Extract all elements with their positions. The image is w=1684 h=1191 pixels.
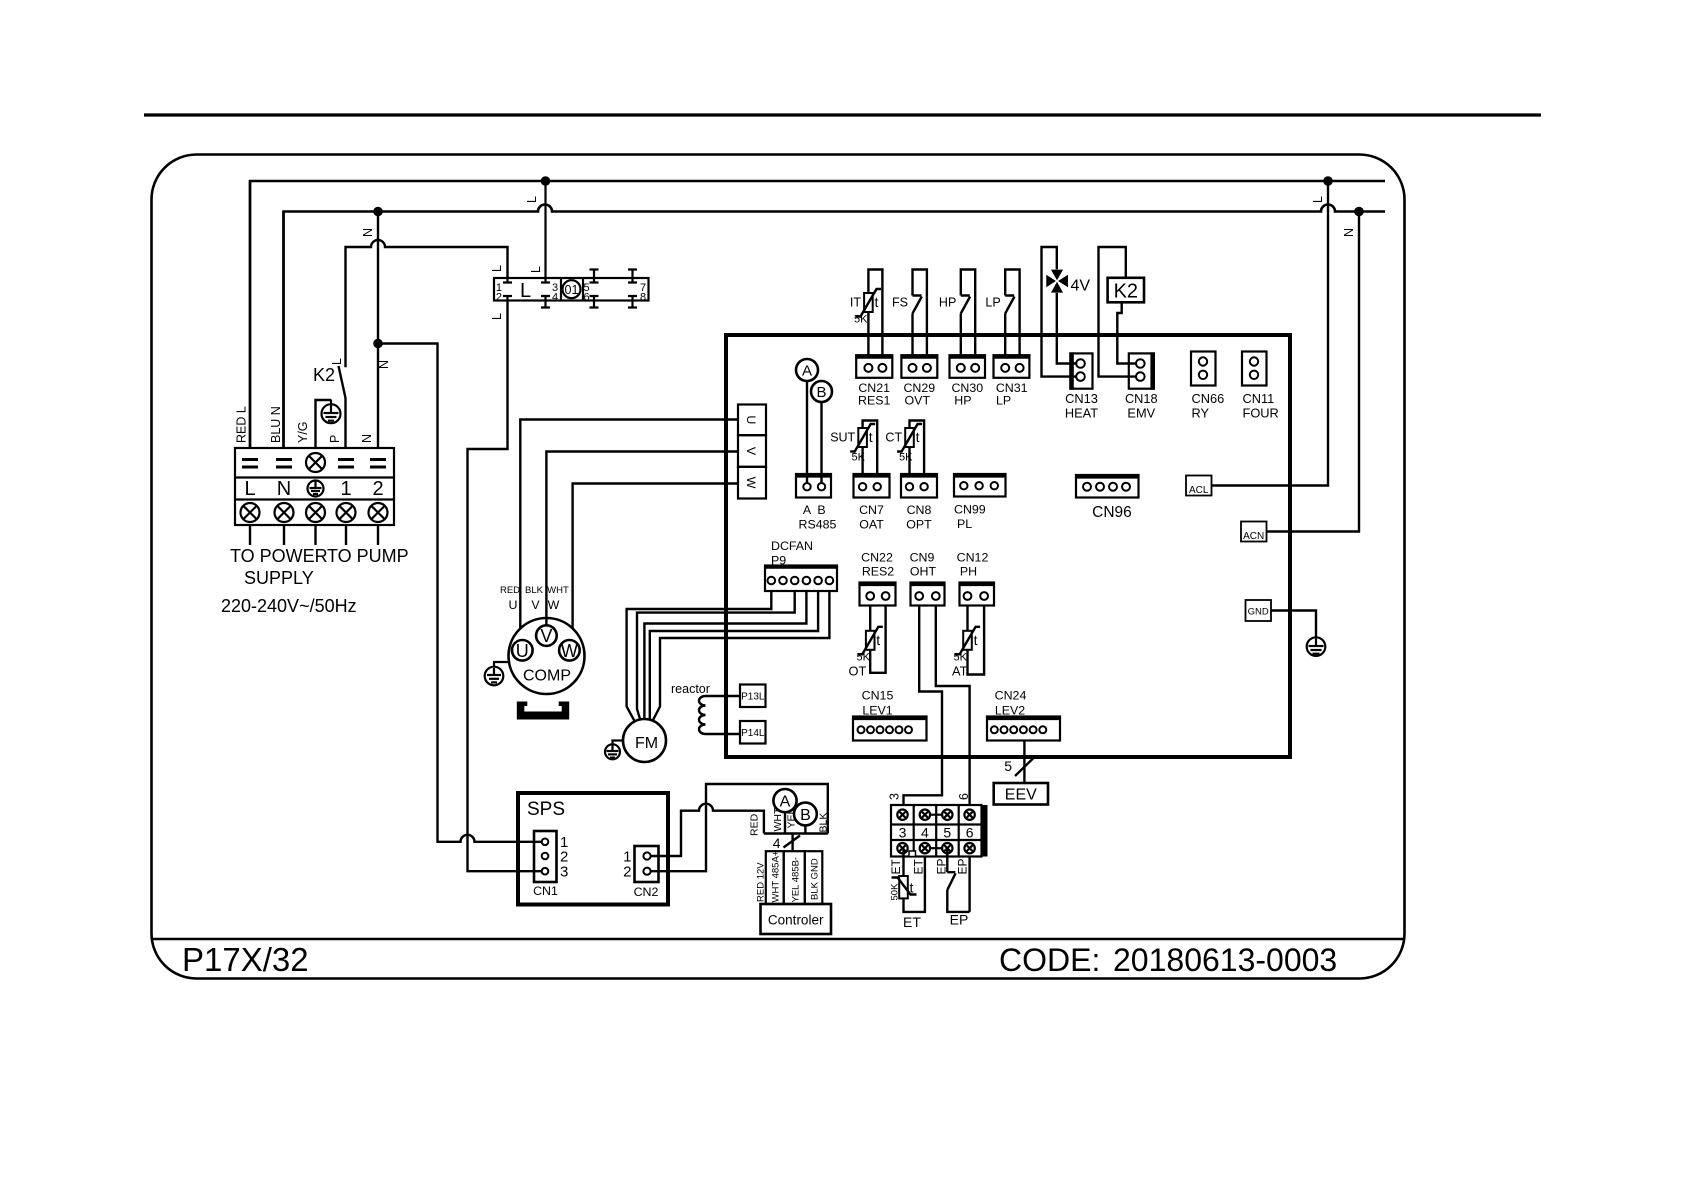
connector CN66 bbox=[1191, 352, 1216, 386]
node L junction right bbox=[1323, 176, 1333, 186]
switch K2 bbox=[339, 366, 346, 398]
connector CN1 bbox=[534, 831, 557, 882]
wire BLU N column bbox=[282, 212, 284, 449]
valve 4V symbol bbox=[1046, 270, 1068, 293]
svg-text:3: 3 bbox=[888, 793, 902, 800]
wire stubs below terminals bbox=[250, 525, 378, 545]
svg-text:HP: HP bbox=[939, 296, 956, 310]
svg-text:RED L: RED L bbox=[235, 406, 249, 443]
label 5 wires slash bbox=[1015, 758, 1034, 777]
connector P14L bbox=[740, 721, 766, 744]
terminal B remote bbox=[794, 803, 817, 826]
box GND bbox=[1246, 600, 1272, 621]
svg-text:6: 6 bbox=[957, 793, 971, 800]
svg-text:A: A bbox=[802, 363, 812, 380]
svg-text:CN11: CN11 bbox=[1243, 391, 1275, 406]
svg-text:3: 3 bbox=[560, 864, 568, 881]
svg-text:3: 3 bbox=[899, 825, 907, 841]
terminal A remote bbox=[773, 789, 796, 812]
node N junction left bbox=[373, 207, 383, 217]
relay pin 2 bbox=[503, 296, 512, 301]
relay pin 7 bbox=[628, 270, 637, 283]
svg-text:DCFAN: DCFAN bbox=[771, 539, 813, 553]
relay pin 4 bbox=[541, 296, 550, 308]
connector CN8 bbox=[901, 474, 937, 498]
sensor ET loop bbox=[904, 848, 925, 912]
svg-text:CN22: CN22 bbox=[861, 551, 893, 565]
svg-text:4: 4 bbox=[773, 835, 781, 851]
relay pin 8 bbox=[628, 296, 637, 308]
svg-text:FS: FS bbox=[892, 296, 908, 310]
svg-text:5: 5 bbox=[943, 825, 951, 841]
svg-text:2: 2 bbox=[372, 478, 383, 500]
controller wire label boxes bbox=[766, 851, 784, 904]
svg-text:5K: 5K bbox=[857, 652, 871, 664]
node N junction lower bbox=[373, 339, 383, 349]
svg-text:V: V bbox=[531, 598, 540, 612]
connector V on board bbox=[738, 435, 766, 467]
svg-text:LP: LP bbox=[985, 296, 1000, 310]
wire L bus bbox=[250, 181, 1385, 448]
wire P9 pin3 to FM bbox=[637, 591, 795, 720]
wire B to RS485 bbox=[820, 402, 822, 483]
svg-text:AT: AT bbox=[952, 664, 968, 679]
svg-text:CN13: CN13 bbox=[1065, 391, 1098, 406]
connector CN31 bbox=[994, 355, 1030, 378]
svg-text:CN15: CN15 bbox=[862, 689, 894, 703]
svg-text:CN7: CN7 bbox=[859, 503, 884, 517]
svg-text:CT: CT bbox=[885, 431, 902, 445]
svg-text:8: 8 bbox=[640, 292, 646, 304]
connector CN2 bbox=[635, 846, 659, 882]
svg-text:CN9: CN9 bbox=[910, 551, 935, 565]
svg-text:L: L bbox=[525, 196, 539, 203]
sensor AT loop bbox=[968, 606, 985, 675]
svg-text:W: W bbox=[561, 641, 578, 661]
svg-text:U: U bbox=[509, 598, 518, 612]
sensor LP loop bbox=[1005, 270, 1019, 356]
terminal screws bottom row bbox=[241, 503, 388, 522]
svg-text:P17X/32: P17X/32 bbox=[182, 941, 309, 978]
wire P9 pin1 to FM bbox=[627, 591, 772, 721]
switch LP bbox=[1005, 296, 1014, 314]
relay terminal strip 01 bbox=[494, 278, 649, 301]
wire P9 pin4 to FM bbox=[644, 591, 806, 719]
box EEV bbox=[994, 783, 1048, 805]
svg-text:HEAT: HEAT bbox=[1065, 406, 1098, 421]
sensor IT loop bbox=[868, 270, 882, 356]
connector U on board bbox=[738, 405, 766, 436]
svg-text:6: 6 bbox=[584, 292, 590, 304]
svg-text:20180613-0003: 20180613-0003 bbox=[1113, 942, 1337, 978]
svg-text:5K: 5K bbox=[852, 452, 866, 464]
svg-text:5: 5 bbox=[1004, 758, 1012, 774]
svg-text:ACN: ACN bbox=[1243, 531, 1264, 542]
connector CN11 bbox=[1242, 352, 1267, 386]
svg-text:A: A bbox=[803, 503, 812, 517]
wire reactor to P14L bbox=[706, 733, 741, 735]
comp terminal W bbox=[559, 640, 580, 661]
svg-text:4: 4 bbox=[921, 825, 929, 841]
small square mark bbox=[909, 851, 916, 857]
relay coil K2 bbox=[1108, 278, 1144, 303]
svg-text:OT: OT bbox=[849, 664, 867, 679]
box SPS bbox=[518, 793, 668, 905]
terminal block right bar bbox=[982, 805, 988, 857]
PCB main board outline bbox=[726, 335, 1290, 757]
svg-text:L: L bbox=[330, 358, 344, 365]
svg-text:t: t bbox=[876, 632, 880, 648]
connector CN15 bbox=[853, 717, 927, 741]
thermistor CT bbox=[905, 428, 914, 447]
thermistor IT bbox=[864, 293, 873, 312]
svg-text:2: 2 bbox=[496, 292, 502, 304]
connector CN21 bbox=[856, 355, 892, 378]
comp mounting bracket bbox=[517, 702, 569, 720]
svg-text:OVT: OVT bbox=[905, 394, 931, 408]
wire ACN to N bbox=[1267, 212, 1360, 532]
inductor reactor bbox=[699, 696, 705, 734]
svg-text:K2: K2 bbox=[1114, 281, 1138, 303]
box Controller bbox=[761, 904, 832, 934]
svg-text:01: 01 bbox=[565, 283, 579, 297]
wire N branch to SPS CN1 pin1 with hop bbox=[378, 344, 542, 842]
svg-text:reactor: reactor bbox=[671, 682, 710, 696]
svg-text:4: 4 bbox=[552, 292, 558, 304]
svg-text:5K: 5K bbox=[954, 652, 968, 664]
svg-text:OAT: OAT bbox=[859, 518, 884, 532]
terminal A rs485 bbox=[796, 359, 818, 381]
comp terminal V bbox=[536, 625, 557, 646]
svg-text:t: t bbox=[875, 294, 879, 310]
svg-text:IT: IT bbox=[850, 296, 861, 310]
relay K2 coil wires bbox=[1099, 247, 1141, 377]
svg-text:V: V bbox=[540, 626, 552, 646]
terminal screws bottom bbox=[897, 843, 975, 853]
svg-text:CN66: CN66 bbox=[1192, 391, 1225, 406]
wire A lead bbox=[784, 812, 786, 833]
node N junction right bbox=[1354, 207, 1364, 217]
svg-text:FOUR: FOUR bbox=[1243, 406, 1279, 421]
wire GND to earth bbox=[1271, 611, 1316, 638]
connector CN96 bbox=[1076, 475, 1139, 498]
box ACN bbox=[1241, 522, 1267, 542]
relay pin 3 bbox=[541, 181, 550, 283]
svg-text:BLK GND: BLK GND bbox=[810, 858, 821, 900]
svg-text:GND: GND bbox=[1248, 607, 1269, 618]
relay lamp 01 bbox=[563, 280, 581, 298]
svg-text:PH: PH bbox=[960, 565, 977, 579]
connector CN12 bbox=[960, 583, 995, 606]
svg-text:YEL 485B-: YEL 485B- bbox=[791, 857, 802, 903]
svg-text:RS485: RS485 bbox=[799, 518, 837, 532]
frame border bbox=[152, 155, 1405, 979]
sensor OT loop bbox=[870, 606, 885, 673]
svg-text:L: L bbox=[490, 265, 504, 272]
svg-text:CN18: CN18 bbox=[1125, 391, 1158, 406]
svg-text:BLK: BLK bbox=[818, 813, 830, 833]
terminal block 3456 bbox=[891, 805, 982, 857]
connector P9 bbox=[765, 566, 837, 592]
sensor CT loop bbox=[910, 421, 925, 475]
svg-text:W: W bbox=[548, 598, 560, 612]
connector CN22 bbox=[860, 583, 896, 606]
svg-text:K2: K2 bbox=[313, 365, 335, 385]
thermistor OT bbox=[866, 631, 875, 650]
svg-text:EP: EP bbox=[935, 858, 949, 874]
svg-text:LP: LP bbox=[996, 394, 1011, 408]
svg-text:U: U bbox=[516, 641, 529, 661]
svg-text:5K: 5K bbox=[854, 314, 868, 326]
svg-text:CN96: CN96 bbox=[1092, 504, 1132, 521]
svg-text:CN12: CN12 bbox=[957, 551, 989, 565]
switch HP bbox=[961, 296, 970, 314]
switch EP bbox=[947, 872, 955, 890]
svg-text:5K: 5K bbox=[899, 452, 913, 464]
svg-text:ET: ET bbox=[903, 914, 921, 930]
svg-text:L: L bbox=[1311, 196, 1325, 203]
top border line bbox=[144, 113, 1541, 116]
label 4 wires slash bbox=[784, 836, 801, 848]
svg-text:CN2: CN2 bbox=[634, 885, 659, 899]
svg-text:RES1: RES1 bbox=[858, 394, 890, 408]
svg-text:BLK: BLK bbox=[525, 585, 544, 596]
wire controller bundle bbox=[791, 834, 793, 852]
svg-text:B: B bbox=[800, 807, 811, 824]
wire N bus with hops bbox=[284, 205, 1386, 449]
wire RED L column bbox=[249, 181, 251, 448]
wire P9 pin6 to FM bbox=[653, 591, 830, 721]
svg-text:OPT: OPT bbox=[906, 518, 932, 532]
wire A to RS485 bbox=[806, 381, 808, 483]
svg-text:COMP: COMP bbox=[523, 668, 571, 685]
footer separator line bbox=[152, 938, 1405, 941]
svg-text:PL: PL bbox=[957, 517, 972, 531]
svg-text:L: L bbox=[244, 478, 255, 500]
earth symbol above Y/G bbox=[322, 400, 341, 424]
svg-text:TO POWER: TO POWER bbox=[230, 546, 328, 566]
svg-text:WHT: WHT bbox=[772, 807, 784, 831]
svg-text:TO PUMP: TO PUMP bbox=[327, 546, 409, 566]
relay pin 1 bbox=[503, 278, 512, 283]
connector CN13 bbox=[1070, 353, 1092, 388]
terminal screws top bbox=[897, 810, 975, 820]
terminal B rs485 bbox=[811, 381, 832, 402]
connector CN30 bbox=[950, 355, 986, 378]
wire ACL to L bbox=[1212, 181, 1329, 486]
svg-text:N: N bbox=[361, 228, 375, 237]
wire relay pin2 to SPS CN1 pin3 bbox=[468, 301, 543, 872]
svg-text:W: W bbox=[744, 477, 758, 489]
earth at GND bbox=[1307, 637, 1326, 656]
thermistor AT bbox=[963, 631, 972, 650]
connector CN9 bbox=[911, 583, 945, 606]
svg-text:CN99: CN99 bbox=[954, 503, 986, 517]
sensor HP loop bbox=[961, 270, 975, 356]
svg-text:L: L bbox=[529, 266, 543, 273]
svg-text:B: B bbox=[817, 503, 825, 517]
connector CN99 bbox=[954, 474, 1006, 497]
svg-text:ET: ET bbox=[912, 858, 926, 874]
thermistor SUT bbox=[858, 428, 867, 447]
svg-text:YEL: YEL bbox=[786, 808, 798, 828]
svg-text:RES2: RES2 bbox=[862, 565, 894, 579]
terminal screws top row bbox=[242, 458, 386, 469]
wire controller bus bbox=[764, 832, 828, 834]
svg-text:EEV: EEV bbox=[1005, 787, 1037, 804]
svg-text:EP: EP bbox=[956, 858, 970, 874]
svg-text:BLU N: BLU N bbox=[269, 406, 283, 443]
svg-text:t: t bbox=[974, 632, 978, 648]
svg-text:SUPPLY: SUPPLY bbox=[244, 568, 314, 588]
wire W comp to board bbox=[573, 484, 738, 629]
svg-text:ACL: ACL bbox=[1189, 485, 1209, 496]
svg-text:RED: RED bbox=[749, 813, 761, 836]
wire CN2 pin1 RED to controller bus with hop bbox=[651, 804, 764, 856]
svg-text:50K: 50K bbox=[890, 883, 901, 901]
relay pin 6 bbox=[590, 296, 599, 308]
svg-text:B: B bbox=[816, 384, 826, 401]
svg-text:Controler: Controler bbox=[768, 913, 824, 928]
svg-text:t: t bbox=[916, 429, 920, 445]
connector CN18 bbox=[1129, 353, 1154, 388]
earth at COMP bbox=[485, 662, 509, 685]
connector CN29 bbox=[901, 355, 937, 378]
wire CN24 to EEV bbox=[1023, 741, 1025, 784]
svg-text:L: L bbox=[490, 313, 504, 320]
svg-text:N: N bbox=[277, 478, 291, 500]
terminal block TB power bbox=[235, 448, 394, 525]
connector CN7 bbox=[854, 474, 890, 498]
wire reactor to P13L bbox=[706, 695, 741, 697]
svg-text:t: t bbox=[869, 429, 873, 445]
connector RS485 bbox=[796, 474, 831, 498]
svg-text:SPS: SPS bbox=[527, 799, 565, 820]
comp terminal U bbox=[512, 640, 533, 661]
svg-text:EMV: EMV bbox=[1127, 406, 1155, 421]
svg-text:N: N bbox=[1342, 228, 1356, 237]
svg-text:RED: RED bbox=[500, 585, 520, 596]
switch FS bbox=[913, 296, 922, 314]
thermistor ET bbox=[899, 876, 908, 898]
wire K2 to relay pin1 with hop bbox=[346, 240, 508, 367]
svg-text:CN1: CN1 bbox=[533, 884, 558, 898]
sensor FS loop bbox=[913, 270, 927, 356]
motor COMP bbox=[509, 618, 585, 694]
svg-text:EP: EP bbox=[950, 912, 969, 928]
svg-text:220-240V~/50Hz: 220-240V~/50Hz bbox=[221, 596, 357, 616]
wire B lead bbox=[804, 825, 806, 833]
valve 4V loop wires bbox=[1042, 247, 1081, 377]
motor FM bbox=[623, 719, 666, 762]
connector P13L bbox=[740, 685, 766, 708]
svg-text:P14L: P14L bbox=[741, 728, 765, 739]
terminal screw circle-x top middle bbox=[306, 453, 325, 472]
svg-text:U: U bbox=[744, 415, 758, 424]
earth at FM bbox=[605, 741, 623, 760]
svg-text:HP: HP bbox=[954, 394, 971, 408]
wire V comp to board bbox=[546, 452, 738, 626]
svg-text:L: L bbox=[520, 280, 531, 302]
terminal earth symbol bbox=[308, 481, 324, 497]
wire P9 pin5 to FM bbox=[650, 591, 818, 720]
svg-text:Y/G: Y/G bbox=[296, 421, 310, 443]
svg-text:WHT 485A+: WHT 485A+ bbox=[771, 850, 782, 902]
svg-text:t: t bbox=[910, 880, 914, 896]
wire CN9 pin2 to terminal 6 bbox=[936, 606, 970, 912]
svg-text:P13L: P13L bbox=[741, 692, 765, 703]
sensor EP loop bbox=[947, 848, 969, 912]
wire N column to terminal 2 bbox=[377, 212, 379, 449]
svg-text:CODE:: CODE: bbox=[999, 942, 1100, 978]
svg-text:V: V bbox=[744, 447, 758, 456]
svg-text:OHT: OHT bbox=[910, 565, 937, 579]
relay pin 5 bbox=[590, 270, 599, 283]
wire CN9 pin1 to terminal 3 bbox=[904, 606, 943, 815]
box ACL bbox=[1186, 476, 1212, 496]
svg-text:2: 2 bbox=[623, 864, 631, 881]
svg-text:CN8: CN8 bbox=[907, 503, 932, 517]
wire U comp to board bbox=[520, 420, 738, 629]
svg-text:FM: FM bbox=[635, 735, 658, 752]
svg-text:4V: 4V bbox=[1071, 278, 1091, 295]
wire CN2 pin2 BLK wrap to controller bus bbox=[651, 784, 828, 871]
svg-text:1: 1 bbox=[340, 478, 351, 500]
wire Y/G column to earth bbox=[316, 400, 332, 448]
svg-text:ET: ET bbox=[889, 858, 903, 874]
connector CN24 bbox=[987, 717, 1060, 741]
wire P column below K2 bbox=[344, 398, 346, 448]
svg-text:WHT: WHT bbox=[547, 585, 569, 596]
svg-text:P: P bbox=[328, 435, 342, 443]
connector W on board bbox=[738, 467, 766, 499]
svg-text:RY: RY bbox=[1192, 406, 1210, 421]
sensor SUT loop bbox=[863, 421, 878, 475]
svg-text:N: N bbox=[360, 434, 374, 443]
svg-text:SUT: SUT bbox=[830, 431, 855, 445]
node L junction at relay pin3 bbox=[541, 176, 551, 186]
svg-text:6: 6 bbox=[966, 825, 974, 841]
svg-text:CN24: CN24 bbox=[995, 689, 1027, 703]
